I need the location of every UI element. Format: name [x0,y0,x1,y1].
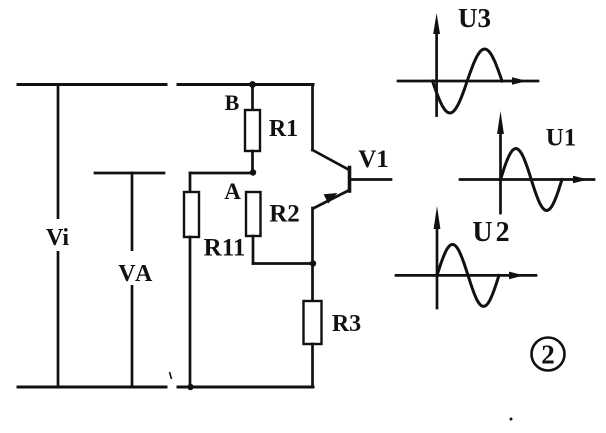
svg-text:R1: R1 [269,116,298,142]
svg-text:U3: U3 [458,3,491,33]
svg-text:V1: V1 [358,146,389,173]
svg-text:Vi: Vi [46,225,69,251]
svg-text:VA: VA [118,261,155,287]
svg-text:R3: R3 [332,311,361,337]
svg-text:B: B [225,90,240,115]
svg-text:U1: U1 [546,125,577,152]
svg-text:A: A [224,179,241,204]
svg-text:2: 2 [541,340,555,370]
svg-text:R2: R2 [269,201,300,228]
svg-text:R11: R11 [204,235,246,262]
svg-text:U2: U2 [472,217,512,248]
